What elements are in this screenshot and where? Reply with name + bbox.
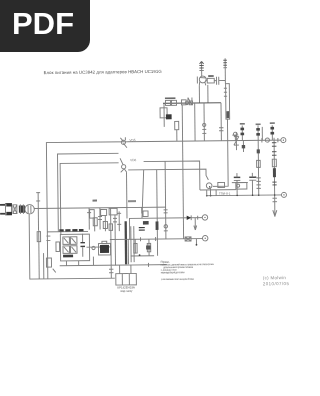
diagonal tick near return [53, 269, 56, 273]
svg-text:VD6: VD6 [130, 158, 136, 162]
wire: choke to snubber row [34, 207, 165, 208]
mid vertical x165.5 [163, 161, 168, 239]
TL431 regulator box [116, 265, 137, 285]
aux winding component box [143, 211, 149, 225]
copyright text [263, 275, 290, 286]
component marks on outer loop x47 [46, 236, 51, 267]
dark cap marks x138-144 [139, 228, 145, 231]
svg-text:перепад общий для платы: перепад общий для платы [161, 270, 185, 274]
resistor R startup [89, 200, 97, 219]
choke core dark block [19, 204, 25, 214]
TL431 label [117, 285, 135, 292]
right output rail x274.7 [272, 138, 277, 217]
dot x139 y255 [139, 254, 141, 256]
mid vertical x157 [155, 170, 159, 256]
TL431 left leg [109, 266, 114, 279]
diode VD5 [120, 137, 136, 148]
stub with dot below bus [196, 239, 198, 246]
cap column x134.8 [134, 239, 138, 253]
wire: rail down to secondary circle [212, 119, 228, 186]
bridge label VD1-VD4 [59, 229, 83, 232]
capacitor string x225 [219, 103, 224, 141]
transistor legs to line [207, 189, 211, 196]
junction ticks on bus [140, 237, 155, 241]
opto feedback circle [92, 246, 95, 249]
mid slanted vertical x144 [141, 170, 144, 219]
resistor R snubber box [109, 208, 117, 215]
vertical x119 [117, 211, 121, 231]
stub verticals to lower bus [66, 256, 148, 268]
top vertical rail with arrow [199, 61, 204, 76]
svg-text:(с) Molwin: (с) Molwin [263, 275, 287, 280]
wire: feedback line to secondary [144, 161, 200, 191]
output terminal circle XS2 [281, 192, 286, 197]
zener with circle x236 [232, 132, 238, 140]
electrolytic cap C1 [80, 234, 85, 257]
IC UC3842 [98, 241, 110, 255]
diode on gate line [188, 98, 192, 106]
diode on top line x237 [234, 132, 239, 150]
wire: rectified bus top [47, 230, 88, 232]
bead circle on top line [262, 138, 278, 143]
wire: lower secondary line to XS2 [207, 194, 282, 197]
vertical x195 with arrow [194, 218, 197, 230]
svg-text:VD5: VD5 [129, 138, 135, 142]
resistor box on upper secondary line [218, 182, 225, 187]
output pin circle XS4 [202, 235, 207, 240]
wire: dark gate line [163, 102, 221, 105]
wire: aux line y218 [129, 218, 202, 240]
snubber cluster verticals [87, 200, 137, 266]
capacitor string x258.5 long rail [256, 123, 263, 195]
transformer T1 primary dark bar [125, 221, 135, 264]
wire: emitter down to gate line [198, 85, 200, 102]
value labels above gate resistors [165, 97, 176, 99]
resistor R divider with label [160, 103, 172, 127]
wire: cap link [232, 181, 248, 183]
wire: output bus y239 [110, 238, 203, 241]
fuse FU1 [13, 205, 17, 214]
wire: IC row line [86, 246, 109, 248]
wire: choke down to return bus [29, 213, 115, 279]
AC plug X1 [0, 203, 12, 215]
wire: upper secondary line [200, 189, 236, 191]
wire: gnd short line y255.8 [131, 255, 154, 257]
capacitor string x243 [240, 123, 245, 152]
wire: inner loop [60, 163, 119, 235]
transistor VT1 [199, 76, 206, 85]
output terminal circle XS1 [281, 138, 286, 143]
rectifier box with pin circle [236, 182, 247, 189]
output pin circle XS3 [202, 215, 207, 220]
svg-text:2010/07/05: 2010/07/05 [263, 281, 290, 286]
electrolytic cap C out2 [249, 173, 256, 195]
vertical x43 to return bus [43, 253, 45, 279]
PDF badge [0, 0, 90, 52]
right vertical rail [224, 58, 226, 83]
vertical x141.6 choke line to aux line [141, 207, 143, 213]
diode VD out1 dark [187, 215, 192, 220]
cap column x148.5 [146, 239, 151, 256]
small box right of pin [189, 101, 192, 105]
svg-text:вид снизу: вид снизу [120, 289, 133, 293]
wire: VD6 leg down [126, 172, 128, 218]
component string x205 [202, 103, 206, 141]
boxed diode on bus [185, 237, 191, 241]
electrolytic cap C out1 [234, 173, 241, 195]
wire: lower bus y264.8 [60, 265, 167, 266]
bridge value label [63, 255, 73, 258]
wire: collector leg down [207, 85, 209, 103]
diode VD6 [120, 158, 137, 172]
resistor string x38.4 [37, 230, 41, 279]
vertical x195.7 gate line to top line [194, 103, 196, 141]
junction tick x197.5 [197, 216, 199, 220]
neutral vertical with tick S1 [36, 192, 40, 230]
capacitor C below divider [175, 121, 179, 141]
transformer T1 upper winding box [226, 84, 230, 120]
long vertical from gate line to output bus [182, 105, 183, 239]
wire: middle loop [58, 153, 120, 231]
resistor R base with value label [197, 75, 216, 83]
thermistor left [56, 242, 60, 252]
svg-text:с контактами плат на щите блок: с контактами плат на щите блока [161, 277, 195, 281]
svg-text:Блок питания на UC3842 для ада: Блок питания на UC3842 для адаптеров НВА… [44, 69, 163, 75]
choke L1 [25, 205, 34, 214]
wire: VD6 output to transistor VT2 [128, 169, 208, 181]
wire: outer AC loop (node L) [46, 140, 282, 279]
junction dots on secondary line [206, 194, 276, 196]
pin circle on gate line [185, 101, 188, 104]
resistor marks on rail [223, 60, 227, 96]
resistor boxes on gate line [165, 100, 170, 105]
capacitor C top [217, 77, 226, 85]
notes text block [161, 259, 215, 281]
bridge rectifier VD1-VD4 box [60, 234, 89, 261]
leg x216 between secondary lines [215, 190, 217, 196]
capacitor string x273 [270, 122, 275, 140]
transistor VT2 secondary [206, 183, 212, 189]
